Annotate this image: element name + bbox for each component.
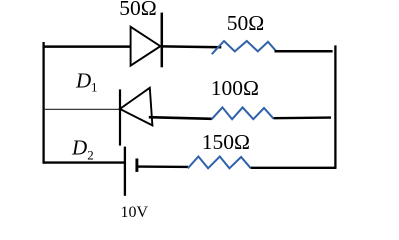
wire: left vertical bus bbox=[42, 42, 44, 164]
wire: bottom branch between battery and resistor bbox=[137, 165, 188, 168]
svg-text:D: D bbox=[71, 136, 87, 160]
diode D1 (pointing right) bbox=[131, 13, 162, 68]
wire: middle branch between diode and resistor bbox=[149, 117, 212, 119]
svg-text:D: D bbox=[75, 69, 91, 93]
resistor 150Ω zigzag (bottom branch) bbox=[188, 157, 251, 169]
label D1 bbox=[75, 69, 98, 95]
diode D2 (pointing left) bbox=[120, 88, 152, 146]
svg-text:1: 1 bbox=[91, 80, 98, 95]
wire: top branch between diode and resistor bbox=[162, 45, 222, 48]
svg-text:50Ω: 50Ω bbox=[227, 11, 264, 35]
svg-text:2: 2 bbox=[87, 148, 94, 163]
battery 10V bbox=[125, 147, 137, 196]
wire: top branch left segment bbox=[43, 45, 132, 48]
svg-text:100Ω: 100Ω bbox=[211, 76, 259, 100]
wire: middle branch left segment (thin) bbox=[44, 108, 120, 110]
wire: middle branch right segment bbox=[274, 116, 331, 119]
wire: bottom branch left segment bbox=[43, 161, 125, 163]
wire: bottom branch right segment bbox=[251, 167, 337, 169]
wire: top branch right segment bbox=[275, 50, 333, 53]
svg-text:150Ω: 150Ω bbox=[202, 130, 250, 154]
svg-text:10V: 10V bbox=[121, 204, 149, 221]
resistor 100Ω zigzag (middle branch) bbox=[212, 107, 274, 119]
resistor 50Ω zigzag (top branch) bbox=[212, 41, 276, 54]
svg-text:50Ω: 50Ω bbox=[119, 0, 156, 20]
label D2 bbox=[71, 136, 94, 163]
wire: right vertical bus bbox=[334, 45, 336, 168]
